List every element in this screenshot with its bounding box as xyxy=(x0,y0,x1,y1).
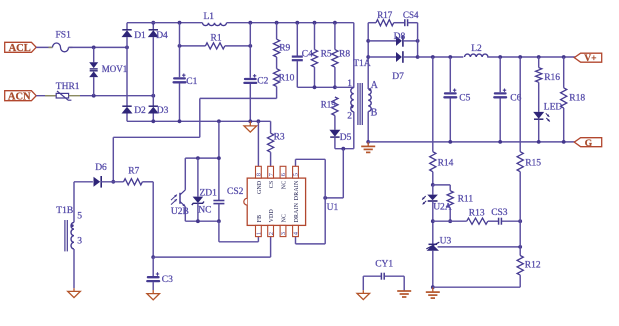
resistor R14 xyxy=(432,57,434,152)
node CS3 right xyxy=(518,219,522,223)
pin 6 stub xyxy=(280,166,286,178)
svg-text:2: 2 xyxy=(347,111,352,121)
node CS2 top xyxy=(217,156,221,160)
ground CY1 left xyxy=(362,276,364,290)
wire pin1 xyxy=(335,86,354,88)
svg-text:NC: NC xyxy=(282,181,288,190)
fuse FS1 xyxy=(53,43,69,52)
wire chain from rail xyxy=(218,121,220,200)
resistor R3 xyxy=(268,133,274,152)
resistor R19 xyxy=(332,97,338,116)
svg-text:R1: R1 xyxy=(211,33,222,43)
inductor L2 xyxy=(465,54,489,57)
zener ZD1 xyxy=(197,158,199,197)
capacitor C3 xyxy=(152,257,154,276)
wire top rail xyxy=(127,22,203,24)
capacitor C4 xyxy=(296,23,298,56)
node R18 bottom xyxy=(562,140,566,144)
svg-text:LED: LED xyxy=(544,103,563,113)
wire bus 221 xyxy=(185,220,219,222)
resistor R12 xyxy=(517,256,523,276)
node R18 top xyxy=(562,55,566,59)
wire VDD to pin2 xyxy=(153,256,270,258)
wire thermistor to bridge leg2 xyxy=(69,95,80,97)
transformer T1A primary winding xyxy=(351,88,354,112)
svg-text:CS: CS xyxy=(269,181,275,189)
transformer T1B winding xyxy=(73,182,75,223)
diode D4 xyxy=(149,29,158,31)
node D7 right xyxy=(416,55,420,59)
node R8 top xyxy=(333,21,337,25)
svg-text:R13: R13 xyxy=(469,208,485,218)
node secondary ground xyxy=(366,140,370,144)
node C3/VDD xyxy=(151,255,155,259)
diode D3 xyxy=(149,105,158,107)
transformer T1A secondary winding xyxy=(368,89,371,112)
wire snubber right vertical xyxy=(417,23,419,57)
wire T1B to ground xyxy=(73,249,75,288)
ground primary DC xyxy=(249,121,251,126)
svg-text:D3: D3 xyxy=(157,106,169,116)
svg-text:D2: D2 xyxy=(134,106,146,116)
wire fb bus xyxy=(433,220,467,222)
svg-text:U2B: U2B xyxy=(171,207,189,217)
transformer T1A core xyxy=(357,83,359,125)
wire pin5 xyxy=(296,158,326,160)
ground CY1 right xyxy=(403,276,405,291)
wire GND pin8 xyxy=(257,121,259,166)
svg-text:R9: R9 xyxy=(279,44,290,54)
op-amp U1 body xyxy=(247,178,305,225)
resistor R11 xyxy=(449,185,451,191)
pin 5 stub xyxy=(293,166,299,178)
wire bridge bottom rail xyxy=(127,120,271,122)
svg-text:G: G xyxy=(585,139,593,149)
node D8 right xyxy=(416,39,420,43)
diode D5 xyxy=(329,130,340,137)
inductor L1 xyxy=(203,23,227,26)
opto-LED U2A xyxy=(432,185,434,195)
svg-text:8: 8 xyxy=(256,173,263,176)
node C5 bottom xyxy=(448,140,452,144)
wire D5 bottom row xyxy=(334,137,336,149)
svg-text:NC: NC xyxy=(198,205,211,215)
capacitor C6 xyxy=(499,57,501,92)
svg-text:CS3: CS3 xyxy=(491,208,508,218)
transformer T1B core xyxy=(64,220,66,251)
svg-text:C1: C1 xyxy=(186,77,197,87)
node U2B chain top xyxy=(217,119,221,123)
wire rail to R3 xyxy=(270,121,272,133)
svg-text:R3: R3 xyxy=(274,133,285,143)
resistor R5 xyxy=(314,23,316,50)
capacitor C5 xyxy=(449,57,451,92)
thermistor THR1 xyxy=(56,93,68,98)
node C4 top xyxy=(295,21,299,25)
svg-text:R17: R17 xyxy=(377,10,393,20)
node C5 top xyxy=(448,55,452,59)
pin 4 stub xyxy=(293,225,299,236)
svg-text:5: 5 xyxy=(293,173,300,176)
node ACN/MOV1 junction xyxy=(92,94,96,98)
svg-text:CY1: CY1 xyxy=(375,259,393,269)
port ACN xyxy=(5,91,37,101)
wire drain vertical xyxy=(324,159,326,244)
wire drain tap down xyxy=(342,149,344,198)
wire output ground rail xyxy=(368,141,575,143)
node R14 top xyxy=(431,55,435,59)
ground secondary power xyxy=(367,142,369,146)
svg-text:2: 2 xyxy=(268,232,275,235)
wire ACN to thermistor xyxy=(36,95,56,97)
svg-text:MOV1: MOV1 xyxy=(102,64,128,74)
opto-transistor U2B xyxy=(184,158,186,190)
node ZD1 top xyxy=(196,156,200,160)
svg-text:D6: D6 xyxy=(95,163,107,173)
node D4 top rail xyxy=(151,21,155,25)
capacitor C1 xyxy=(179,23,181,77)
wire U3 bottom bus xyxy=(433,286,520,288)
svg-text:R8: R8 xyxy=(339,49,350,59)
capacitor CS2 xyxy=(213,200,224,202)
wire fuse to bridge leg1 xyxy=(69,46,73,48)
capacitor CS4 xyxy=(404,19,406,26)
wire ACL to fuse xyxy=(36,46,52,48)
node C2 top xyxy=(248,21,252,25)
svg-text:THR1: THR1 xyxy=(56,82,80,92)
diode D6 xyxy=(94,177,101,187)
svg-text:D1: D1 xyxy=(134,31,146,41)
node C1 bottom xyxy=(178,119,182,123)
node U2A bottom bus xyxy=(431,219,435,223)
node ACL/MOV1 junction xyxy=(92,46,96,50)
node D6/R7 junction xyxy=(111,180,115,184)
wire secondary top xyxy=(367,23,369,89)
port V+ xyxy=(574,53,601,62)
wire T1B to D6 xyxy=(74,181,93,183)
pin 8 stub xyxy=(256,166,262,178)
diode D8 xyxy=(368,40,396,42)
wire FB path xyxy=(218,221,220,242)
svg-text:5: 5 xyxy=(77,211,82,221)
svg-text:FB: FB xyxy=(257,215,263,223)
wire rail y87 xyxy=(297,86,335,88)
svg-text:V+: V+ xyxy=(584,54,596,64)
svg-text:ZD1: ZD1 xyxy=(200,189,218,199)
node U3 ground xyxy=(431,285,435,289)
svg-text:R15: R15 xyxy=(525,158,541,168)
capacitor C2 xyxy=(249,23,251,78)
svg-text:L2: L2 xyxy=(471,44,482,54)
ground U3 xyxy=(432,287,434,292)
svg-text:D7: D7 xyxy=(392,72,404,82)
wire bridge leg1 xyxy=(126,23,128,30)
wire R7 to VDD node xyxy=(142,181,153,183)
capacitor CS3 xyxy=(488,220,498,222)
varistor MOV1 xyxy=(93,47,95,62)
resistor R18 xyxy=(563,57,565,88)
diode D7 xyxy=(368,56,396,58)
svg-text:R5: R5 xyxy=(321,49,332,59)
svg-text:R18: R18 xyxy=(569,93,585,103)
node D3 bottom xyxy=(151,119,155,123)
wire R10 bottom to D6 node xyxy=(276,87,278,99)
wire transformer pin2 xyxy=(353,112,355,149)
svg-text:D4: D4 xyxy=(156,31,168,41)
svg-text:D5: D5 xyxy=(340,133,352,143)
node R9 top xyxy=(275,21,279,25)
wire top rail continues xyxy=(227,22,354,24)
svg-text:R7: R7 xyxy=(128,166,139,176)
node C1 top xyxy=(178,21,182,25)
resistor R13 xyxy=(467,218,488,224)
node drain U1 xyxy=(323,196,327,200)
svg-text:ACN: ACN xyxy=(8,91,31,102)
node CS2 bottom xyxy=(217,219,221,223)
svg-text:R12: R12 xyxy=(525,260,541,270)
svg-text:NC: NC xyxy=(282,214,288,223)
svg-text:R16: R16 xyxy=(544,73,560,83)
resistor R7 xyxy=(124,179,143,185)
node C2/ground xyxy=(248,119,252,123)
svg-text:A: A xyxy=(371,80,379,91)
wire VDC+ down to transformer pin 1 xyxy=(353,23,355,88)
shunt regulator U3 xyxy=(429,243,438,245)
port ACL xyxy=(5,42,37,52)
node ACN/bridge junction xyxy=(151,94,155,98)
svg-text:R14: R14 xyxy=(438,158,454,168)
diode D1 xyxy=(122,29,131,31)
node LED bottom xyxy=(537,140,541,144)
pin 7 stub xyxy=(268,166,274,178)
resistor R17 xyxy=(368,22,376,24)
svg-text:1: 1 xyxy=(256,232,263,235)
port G xyxy=(574,138,601,147)
ground T1B xyxy=(73,288,75,291)
svg-text:1: 1 xyxy=(347,79,352,89)
wire secondary bottom to ground xyxy=(367,112,369,142)
node R1 left xyxy=(178,44,182,48)
node R16 top xyxy=(537,55,541,59)
node ZD1 bottom xyxy=(196,219,200,223)
svg-text:DRAIN: DRAIN xyxy=(294,202,300,222)
svg-text:3: 3 xyxy=(280,232,287,235)
diode D2 xyxy=(122,105,131,107)
svg-text:R10: R10 xyxy=(279,73,295,83)
ground C3 xyxy=(152,290,154,294)
node drain tap xyxy=(341,147,345,151)
node C6 top xyxy=(498,55,502,59)
resistor R10 xyxy=(276,57,278,69)
wire R14/R11 bus xyxy=(433,184,450,186)
svg-text:FS1: FS1 xyxy=(56,31,72,41)
svg-text:GND: GND xyxy=(257,180,263,194)
svg-text:3: 3 xyxy=(77,236,82,246)
svg-text:R11: R11 xyxy=(458,195,474,205)
wire pin4 xyxy=(296,243,326,245)
resistor R9 xyxy=(276,23,278,40)
node GND pin8 wire xyxy=(257,119,261,123)
svg-text:L1: L1 xyxy=(204,12,215,22)
pin 2 stub xyxy=(268,225,274,236)
resistor R16 xyxy=(538,57,540,68)
wire bridge leg2 xyxy=(152,23,154,30)
svg-text:DRAIN: DRAIN xyxy=(294,180,300,200)
LED xyxy=(533,112,544,119)
svg-text:T1B: T1B xyxy=(56,206,73,216)
node ACL/bridge junction xyxy=(125,46,129,50)
pin 1 stub xyxy=(256,225,262,236)
svg-text:VDD: VDD xyxy=(269,208,275,222)
svg-text:C5: C5 xyxy=(459,93,470,103)
svg-text:CS2: CS2 xyxy=(227,187,244,197)
svg-text:ACL: ACL xyxy=(9,43,31,54)
node R5 top xyxy=(313,21,317,25)
node D7 left xyxy=(366,55,370,59)
svg-text:CS4: CS4 xyxy=(403,10,419,20)
wire bus 158 xyxy=(185,157,219,159)
node pin1 junction xyxy=(333,85,337,89)
resistor R1 xyxy=(180,45,206,47)
node R14 bottom xyxy=(431,183,435,187)
node ref/R12 xyxy=(518,245,522,249)
svg-text:U2A: U2A xyxy=(433,203,452,213)
wire V+ rail xyxy=(418,56,464,58)
resistor R8 xyxy=(334,23,336,50)
wire U3 ref xyxy=(438,246,521,248)
svg-text:D8: D8 xyxy=(394,32,406,42)
node R11 bottom xyxy=(448,219,452,223)
capacitor CY1 xyxy=(363,275,381,277)
svg-text:R19: R19 xyxy=(321,99,337,109)
resistor R15 xyxy=(519,57,521,152)
node R15 top xyxy=(518,55,522,59)
node R1 right xyxy=(248,44,252,48)
node D8 left xyxy=(366,39,370,43)
svg-text:U1: U1 xyxy=(327,203,339,213)
pin 3 stub xyxy=(280,225,286,236)
node C6 bottom xyxy=(498,140,502,144)
svg-text:B: B xyxy=(371,108,378,119)
node R5 bottom xyxy=(313,85,317,89)
svg-text:C3: C3 xyxy=(162,275,173,285)
svg-text:U3: U3 xyxy=(440,236,452,246)
svg-text:C2: C2 xyxy=(257,76,268,86)
